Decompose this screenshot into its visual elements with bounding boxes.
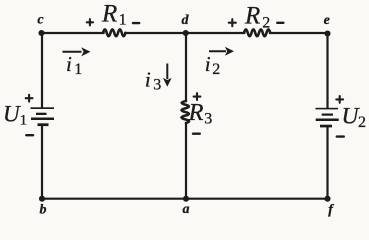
svg-text:2: 2	[262, 14, 270, 31]
wire e down to U2	[326, 33, 328, 108]
resistor R3	[182, 101, 190, 123]
minus of U2	[337, 135, 344, 137]
wire U1 to b	[41, 125, 43, 199]
plus of U2	[336, 96, 343, 103]
svg-text:a: a	[183, 202, 190, 217]
resistor R2	[244, 29, 270, 36]
battery U1 plate long	[31, 118, 54, 121]
plus of R2	[229, 19, 236, 26]
wire R1 to d	[125, 32, 186, 34]
svg-text:R: R	[244, 2, 260, 29]
svg-text:2: 2	[358, 114, 366, 131]
current arrow i1 head	[81, 47, 90, 56]
minus of R1	[133, 22, 139, 24]
svg-text:i: i	[66, 52, 72, 76]
svg-text:1: 1	[119, 12, 127, 29]
svg-text:R: R	[101, 1, 117, 28]
node a	[183, 196, 189, 202]
current arrow i2 shaft	[209, 50, 226, 52]
node e	[324, 30, 330, 36]
svg-text:1: 1	[74, 61, 82, 78]
svg-text:U: U	[3, 101, 21, 126]
plus of R3	[194, 93, 201, 100]
svg-text:R: R	[188, 99, 204, 126]
battery U1 plate short bottom	[38, 123, 49, 126]
svg-text:3: 3	[153, 76, 161, 93]
wire c down to U1	[41, 33, 43, 108]
svg-text:i: i	[145, 67, 151, 91]
wire R3 to a	[185, 123, 187, 199]
node b	[39, 196, 45, 202]
current arrow i3 head	[163, 78, 172, 87]
bottom wire b to a	[42, 198, 186, 200]
node d	[183, 30, 189, 36]
current arrow i2 head	[225, 47, 234, 56]
svg-text:i: i	[205, 52, 211, 76]
plus of U1	[26, 95, 33, 102]
svg-text:e: e	[324, 13, 330, 28]
svg-text:b: b	[40, 203, 47, 218]
minus of U1	[26, 134, 33, 136]
svg-text:c: c	[37, 12, 44, 27]
node c	[38, 30, 44, 36]
resistor R1	[103, 29, 126, 36]
minus of R3	[193, 132, 200, 134]
wire U2 to f	[326, 126, 328, 199]
battery U1 plate short	[36, 113, 47, 115]
plus of R1	[87, 19, 93, 25]
svg-text:1: 1	[20, 113, 28, 129]
svg-text:d: d	[182, 13, 190, 28]
wire d to R2	[186, 32, 245, 34]
svg-text:2: 2	[212, 61, 220, 78]
node f	[324, 196, 330, 202]
battery U2 plate long	[316, 119, 339, 122]
wire c to R1	[42, 32, 104, 34]
battery U1 plate long top	[31, 107, 55, 109]
battery U2 plate long top	[316, 108, 339, 110]
wire R2 to e	[270, 32, 328, 34]
current arrow i3 shaft	[166, 64, 168, 80]
wire d down to R3	[185, 33, 187, 101]
current arrow i1 shaft	[63, 51, 82, 53]
minus of R2	[277, 22, 283, 24]
svg-text:3: 3	[204, 111, 212, 128]
battery U2 plate short bottom	[320, 125, 332, 128]
bottom wire a to f	[186, 198, 328, 200]
battery U2 plate short	[322, 114, 333, 116]
